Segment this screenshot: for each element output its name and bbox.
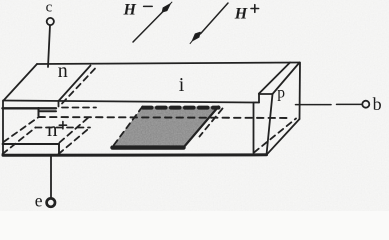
slab top back edge — [37, 63, 300, 65]
p mesa front-left vertical — [258, 94, 260, 103]
p mesa front top edge — [259, 93, 273, 95]
svg-text:H: H — [234, 5, 248, 22]
hidden edge: n+ bottom-right depth (dashed) — [59, 128, 91, 155]
bombarded region top edge (thick dashed) — [143, 106, 219, 110]
svg-text:i: i — [179, 74, 185, 96]
bombarded region bottom edge (thick) — [113, 145, 184, 149]
p mesa top-right depth edge — [273, 63, 300, 95]
n region inner step line — [39, 110, 57, 112]
svg-text:e: e — [35, 190, 43, 210]
slab back-right vertical — [299, 63, 302, 120]
bombarded region right edge — [184, 107, 219, 148]
n region step vertical — [38, 108, 40, 116]
hidden edge: p junction bottom depth (dashed) — [254, 119, 296, 153]
p mesa top-left depth edge — [259, 63, 290, 94]
p mesa front-right vertical / slab right edge — [267, 94, 273, 155]
svg-text:n: n — [58, 60, 68, 82]
n+ contact front rectangle top edge — [3, 143, 60, 145]
wire b lead — [296, 104, 332, 106]
svg-text:b: b — [373, 94, 382, 114]
hidden edge: n diffusion front bottom (dashed) — [62, 107, 96, 109]
bombarded region left edge (dashed) — [112, 107, 143, 148]
bombarded region stippled fill — [112, 107, 219, 148]
p junction line on front face — [253, 103, 255, 154]
node c terminal circle — [47, 18, 54, 25]
node e terminal circle — [47, 198, 55, 206]
slab top-left depth edge — [4, 64, 38, 101]
slab bottom-right depth edge — [267, 119, 300, 155]
hidden edge: long boundary line across bar (dashed) — [39, 117, 290, 118]
slab top front edge — [4, 101, 260, 103]
wire e lead — [50, 155, 52, 197]
n+ contact front rectangle right edge — [58, 144, 60, 155]
n region front step line — [3, 107, 57, 109]
hidden edge: n+ top-right depth (dashed) — [60, 117, 90, 143]
svg-text:H: H — [123, 1, 137, 18]
slab left vertical edge — [2, 101, 4, 156]
slab bottom front edge — [3, 153, 267, 157]
hidden edge: n+ back bottom (dashed) — [36, 127, 91, 129]
wire c lead — [48, 25, 50, 67]
svg-text:n: n — [47, 117, 58, 141]
n region corner tick — [58, 101, 60, 107]
hidden edge: n+ bottom-left depth (dashed) — [3, 128, 36, 155]
node b terminal circle — [362, 101, 369, 108]
hidden edge beside bombarded region (dashed) — [200, 109, 223, 137]
arrow H minus — [133, 2, 172, 42]
svg-text:p: p — [277, 85, 285, 102]
svg-text:c: c — [46, 0, 53, 16]
hidden edge: n+ top-left depth (dashed) — [4, 118, 39, 143]
hidden edge: n diffusion right depth (dashed) — [62, 68, 96, 104]
n region right boundary on top face — [59, 66, 91, 102]
arrow H plus — [190, 3, 228, 44]
